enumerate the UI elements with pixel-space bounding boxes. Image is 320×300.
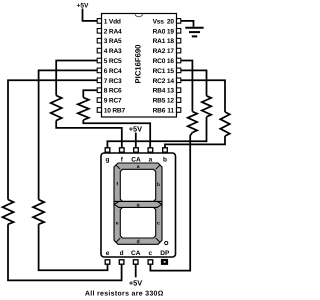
seven segment lower ring (segments e,c,d) — [114, 201, 162, 244]
svg-text:b: b — [163, 156, 167, 163]
svg-text:b: b — [157, 182, 160, 188]
IC U1 pin-1 notch — [135, 14, 142, 17]
svg-text:CA: CA — [131, 156, 141, 163]
svg-text:19: 19 — [167, 28, 174, 35]
svg-text:RC2: RC2 — [153, 78, 166, 85]
wire R1 to display pin f — [56, 121, 122, 148]
svg-text:g: g — [137, 202, 140, 208]
svg-text:a: a — [137, 164, 140, 170]
svg-text:RC1: RC1 — [153, 68, 166, 75]
svg-text:15: 15 — [167, 68, 174, 75]
svg-text:+5V: +5V — [129, 278, 142, 287]
svg-text:13: 13 — [167, 88, 174, 95]
wire +5V to pin 1 Vdd — [83, 9, 98, 21]
right pin boxes 20-11 — [177, 19, 181, 113]
seven segment figure-8 upper ring (segments a,f,b) — [114, 163, 162, 207]
display top pin labels — [106, 156, 168, 163]
segment corner miter lines — [116, 165, 161, 243]
svg-text:g: g — [106, 156, 110, 163]
svg-text:3 RA5: 3 RA5 — [104, 38, 122, 45]
wire pin6 RC4 to resistor R3 — [39, 70, 98, 199]
svg-text:1 Vdd: 1 Vdd — [104, 18, 121, 25]
left pin boxes 1-10 — [97, 19, 101, 113]
ground symbol — [185, 28, 203, 37]
svg-text:RC0: RC0 — [153, 58, 166, 65]
wire Vss pin 20 to ground — [181, 21, 194, 27]
wire R4 to display pin d — [8, 224, 122, 280]
svg-text:d: d — [137, 239, 140, 245]
svg-text:RA1: RA1 — [153, 38, 166, 45]
resistor R4 (330) — [3, 200, 14, 225]
svg-text:DP: DP — [160, 250, 170, 257]
svg-text:10 RB7: 10 RB7 — [104, 108, 126, 115]
resistor R6 (330) — [202, 96, 211, 117]
wire pin7 RC3 to resistor R4 — [8, 80, 97, 199]
wire R3 to display pin e — [39, 224, 108, 270]
wire R7 to display pin b — [165, 136, 225, 148]
segment labels — [116, 164, 160, 245]
IC U1 PIC16F690 microcontroller body — [102, 14, 177, 118]
svg-text:RA0: RA0 — [153, 28, 166, 35]
svg-text:RB4: RB4 — [153, 88, 166, 95]
svg-text:RB5: RB5 — [153, 98, 166, 105]
svg-text:d: d — [120, 250, 124, 257]
svg-text:RB6: RB6 — [153, 108, 166, 115]
7-segment display body DS1 — [101, 153, 176, 257]
svg-text:e: e — [116, 221, 119, 227]
svg-text:e: e — [106, 250, 110, 257]
wire pin16 RC0 to resistor R5 — [181, 61, 193, 112]
svg-text:5 RC5: 5 RC5 — [104, 58, 122, 65]
svg-text:+5V: +5V — [77, 2, 90, 9]
wire R6 to display pin g — [107, 117, 206, 148]
svg-text:7 RC3: 7 RC3 — [104, 78, 122, 85]
resistor R1 (330) — [51, 96, 62, 121]
display top pin boxes g f CA a b — [105, 148, 167, 152]
wire pin5 RC5 to resistor R1 — [56, 61, 97, 96]
svg-text:8 RC6: 8 RC6 — [104, 88, 122, 95]
svg-text:4 RA3: 4 RA3 — [104, 48, 122, 55]
wire pin15 RC1 to resistor R6 — [181, 70, 207, 95]
svg-text:14: 14 — [167, 78, 174, 85]
resistor R7 (330) — [220, 112, 229, 136]
svg-text:16: 16 — [167, 58, 174, 65]
svg-text:RA2: RA2 — [153, 48, 166, 55]
wire R5 to display pin c — [150, 133, 192, 271]
wire pin8 RC6 to resistor R2 — [83, 90, 97, 97]
resistor R2 (330) — [78, 98, 89, 121]
pin labels right — [153, 18, 175, 114]
segment g bar — [114, 201, 161, 207]
svg-text:18: 18 — [167, 38, 174, 45]
svg-text:a: a — [149, 156, 153, 163]
svg-text:Vss: Vss — [153, 18, 165, 25]
display bottom pin boxes e d CA c DP — [105, 260, 153, 264]
svg-text:+5V: +5V — [129, 124, 142, 133]
svg-text:PIC16F690: PIC16F690 — [134, 45, 143, 84]
svg-text:6 RC4: 6 RC4 — [104, 68, 122, 75]
wire CA bottom pin to +5V — [135, 265, 137, 278]
svg-text:c: c — [148, 250, 152, 257]
svg-text:CA: CA — [131, 250, 141, 257]
svg-text:c: c — [157, 221, 160, 227]
display bottom pin labels — [106, 250, 170, 257]
svg-text:20: 20 — [167, 18, 174, 25]
resistor R3 (330) — [33, 200, 44, 225]
svg-text:11: 11 — [167, 108, 174, 115]
pin labels left — [104, 18, 126, 114]
wire pin14 RC2 to resistor R7 — [181, 80, 225, 112]
wire R2 to display pin a — [83, 120, 150, 148]
wire +5V to CA top pin — [135, 133, 137, 148]
pin DP stub (unconnected) — [161, 259, 167, 264]
decimal point o — [165, 241, 168, 244]
svg-text:9 RC7: 9 RC7 — [104, 98, 122, 105]
svg-text:12: 12 — [167, 98, 174, 105]
svg-text:All resistors are 330Ω: All resistors are 330Ω — [85, 289, 164, 297]
svg-text:2 RA4: 2 RA4 — [104, 28, 122, 35]
svg-text:17: 17 — [167, 48, 174, 55]
resistor R5 (330) — [188, 112, 197, 133]
